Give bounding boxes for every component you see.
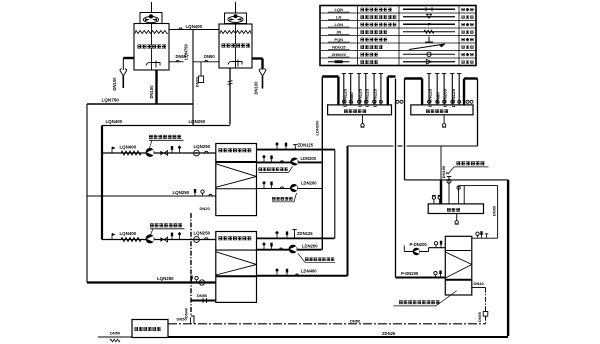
svg-text:DN50: DN50 bbox=[110, 331, 121, 336]
wire y180 line bbox=[405, 179, 509, 181]
label chiller2 primary pump bbox=[298, 254, 335, 263]
svg-text:LDN200: LDN200 bbox=[314, 120, 319, 136]
PHE supply wire with pump bbox=[404, 241, 445, 256]
wire trunk x477 bbox=[477, 79, 479, 147]
wire y146 cross line bbox=[348, 145, 478, 147]
chiller unit 2 bbox=[216, 232, 257, 303]
wire trunk x404 bbox=[404, 79, 406, 180]
svg-text:LGN: LGN bbox=[335, 22, 344, 27]
wire drop x441 to distributor bbox=[440, 146, 442, 204]
label PHE name bbox=[394, 291, 457, 306]
svg-text:DN50: DN50 bbox=[176, 54, 187, 59]
svg-text:LQN400: LQN400 bbox=[186, 24, 203, 29]
CT2 overflow drain with funnel bbox=[252, 59, 266, 89]
chiller2 port3 wire LDN400 bbox=[257, 268, 348, 276]
CT2 outlet pipe bbox=[228, 68, 233, 125]
header1 right bridge bbox=[388, 77, 396, 105]
svg-text:LN: LN bbox=[336, 14, 341, 19]
legend table grid bbox=[320, 6, 476, 66]
svg-text:LQN250: LQN250 bbox=[194, 230, 211, 235]
label P-DN200 bottom bbox=[401, 271, 419, 276]
svg-text:L-DN125: L-DN125 bbox=[342, 88, 347, 107]
riser x322 with top bridge bbox=[322, 77, 338, 250]
svg-text:F: F bbox=[428, 22, 431, 27]
makeup water dash riser x191 bbox=[191, 206, 211, 324]
svg-text:LDN200: LDN200 bbox=[301, 181, 317, 186]
label P-DN200 top bbox=[410, 242, 428, 247]
svg-text:DN150: DN150 bbox=[149, 85, 154, 99]
chiller1 port1 wire ZDN125 bbox=[257, 142, 335, 150]
svg-text:L-DN125: L-DN125 bbox=[428, 88, 433, 107]
label DN50 left bbox=[176, 54, 187, 59]
svg-text:JN: JN bbox=[336, 29, 341, 34]
CT2 drain label DN100 bbox=[254, 81, 259, 95]
label LQN400 inter-tower bbox=[186, 24, 203, 29]
chiller2 port2 wire with pump bbox=[257, 242, 322, 253]
cooling tower CT1 fan box bbox=[140, 13, 162, 24]
header1 riser labels bbox=[342, 88, 377, 107]
wire bottom solid line bbox=[168, 331, 508, 337]
wire trunk x347 bbox=[347, 146, 349, 276]
distributor bottom drain bbox=[455, 214, 459, 225]
wire right trunk x508 bbox=[507, 180, 509, 336]
svg-text:DN50: DN50 bbox=[350, 318, 361, 323]
svg-text:LQN250: LQN250 bbox=[173, 190, 190, 195]
wire return LQN250 y282.5 bbox=[87, 276, 216, 286]
pump line 1 cooling water y153 bbox=[102, 144, 216, 157]
distributor risers pair bbox=[457, 186, 472, 204]
cooling tower CT2 fan box bbox=[225, 13, 247, 24]
wire makeup inlet bbox=[98, 331, 132, 342]
svg-text:L-DN125: L-DN125 bbox=[451, 88, 456, 107]
label DN50 rotated x483 bbox=[477, 312, 482, 322]
cooling tower CT2 body bbox=[219, 24, 252, 68]
distributor header box 2 bbox=[411, 105, 473, 115]
svg-text:DN80: DN80 bbox=[349, 92, 354, 104]
CT1 drain label DN100 bbox=[112, 77, 117, 91]
label LQN250 header bbox=[189, 119, 206, 124]
svg-text:DN80: DN80 bbox=[436, 92, 441, 104]
svg-text:LQN400: LQN400 bbox=[106, 119, 123, 124]
chiller unit 1 bbox=[216, 144, 257, 216]
label cooling pump 1 name bbox=[149, 136, 184, 148]
wire bottom dash-dot line bbox=[168, 317, 486, 324]
PHE drain dash riser bbox=[472, 288, 488, 324]
svg-text:DN50: DN50 bbox=[204, 54, 215, 59]
distributor riser tall bbox=[446, 172, 451, 204]
label DN70 rotated bbox=[195, 76, 200, 87]
legend column 1 pipe codes bbox=[328, 7, 350, 63]
CT1 outlet pipe bbox=[155, 70, 157, 104]
svg-text:LQN400: LQN400 bbox=[120, 231, 137, 236]
svg-text:L-DN200: L-DN200 bbox=[443, 88, 448, 107]
stray gauge pair bbox=[396, 100, 403, 103]
svg-text:DN50: DN50 bbox=[491, 205, 496, 216]
collector header box 1 bbox=[328, 105, 392, 115]
svg-text:P-DN200: P-DN200 bbox=[410, 242, 428, 247]
wire CT2 DN50 branch bbox=[193, 60, 219, 61]
DN70 drop with valve box bbox=[198, 62, 203, 83]
header1 bottom drain bbox=[361, 115, 365, 127]
svg-text:LQN: LQN bbox=[335, 7, 344, 12]
makeup water device box bbox=[132, 320, 168, 338]
header2 right bridge bbox=[464, 79, 478, 105]
svg-text:ZDN125: ZDN125 bbox=[298, 143, 314, 148]
wire trunk B x102 bbox=[101, 126, 103, 240]
PHE top right wire bbox=[472, 231, 498, 238]
wire trunk x395 bbox=[395, 79, 397, 278]
label cooling pump 2 name bbox=[150, 224, 185, 234]
label DN150 rotated x444 bbox=[441, 165, 446, 178]
svg-text:ZDN125: ZDN125 bbox=[297, 231, 313, 236]
svg-text:ZDN25: ZDN25 bbox=[382, 331, 396, 336]
svg-text:DN50: DN50 bbox=[177, 317, 188, 322]
svg-text:LDN400: LDN400 bbox=[301, 268, 317, 273]
svg-text:DN50: DN50 bbox=[197, 293, 208, 298]
header1 risers bbox=[342, 74, 384, 105]
svg-text:LQN250: LQN250 bbox=[189, 119, 206, 124]
label DN40 PHE bbox=[474, 281, 485, 286]
wire DN50 to PHE bbox=[472, 186, 498, 239]
legend column 2 descriptions bbox=[361, 9, 398, 63]
wire header y125 LQN400-LQN250 bbox=[102, 125, 230, 127]
svg-text:P-DN200: P-DN200 bbox=[401, 271, 419, 276]
svg-text:DN100: DN100 bbox=[254, 81, 259, 95]
wire riser between towers bbox=[192, 30, 194, 126]
CT1 outlet label DN150 bbox=[149, 85, 154, 99]
cooling tower CT1 body bbox=[134, 24, 169, 71]
svg-text:DN70: DN70 bbox=[195, 76, 200, 87]
header2 riser labels bbox=[428, 88, 456, 107]
cooling tower CT1 fan stub bbox=[151, 2, 153, 13]
wire return LQN250 y196 bbox=[87, 189, 216, 196]
header2 left bridge bbox=[405, 79, 423, 105]
plate heat exchanger PHE bbox=[445, 236, 472, 295]
wire trunk A x87 bbox=[86, 104, 88, 283]
chiller1 port2 wire with pump bbox=[257, 155, 322, 166]
label DN40 rotated x187 bbox=[184, 308, 189, 318]
gauge pair header2 bbox=[466, 100, 473, 103]
wire inter-tower LQN400 bbox=[169, 28, 219, 30]
svg-text:LQN250: LQN250 bbox=[157, 276, 174, 281]
svg-text:NDG15: NDG15 bbox=[332, 44, 346, 49]
svg-text:PQN: PQN bbox=[334, 37, 343, 42]
label LQN750 riser bbox=[184, 43, 189, 59]
svg-text:LQN750: LQN750 bbox=[102, 97, 120, 102]
svg-text:LDN200: LDN200 bbox=[302, 243, 318, 248]
svg-text:DN20: DN20 bbox=[200, 206, 211, 211]
legend column 3 line symbols bbox=[403, 7, 455, 64]
PHE return wire bbox=[396, 271, 446, 278]
svg-text:LDN200: LDN200 bbox=[301, 156, 317, 161]
cooling tower CT2 fan stub bbox=[235, 2, 237, 13]
label LDN200 rotated x318 bbox=[314, 120, 319, 136]
svg-text:L-DN125: L-DN125 bbox=[373, 88, 378, 107]
svg-text:DN100: DN100 bbox=[112, 77, 117, 91]
distributor risers small bbox=[432, 195, 441, 204]
legend column 4 notes bbox=[462, 9, 475, 63]
small distributor box bbox=[428, 204, 483, 214]
chiller2 port1 wire ZDN125 bbox=[257, 230, 335, 239]
svg-text:DN50: DN50 bbox=[477, 312, 482, 322]
label chiller1 secondary pump bbox=[272, 193, 297, 202]
header2 bottom drain bbox=[442, 115, 446, 127]
label plant makeup note bbox=[448, 162, 489, 174]
label LQN400 header bbox=[106, 119, 123, 124]
wire chiller2 makeup y300.5 bbox=[191, 293, 216, 303]
wire header LQN750 y104 bbox=[87, 103, 193, 105]
label DN50 rotated x495 bbox=[491, 205, 496, 216]
svg-text:L-DN125: L-DN125 bbox=[364, 88, 369, 107]
chiller1 port3 wire with pump bbox=[257, 181, 322, 192]
svg-text:DN40: DN40 bbox=[474, 281, 485, 286]
svg-text:ZH0000: ZH0000 bbox=[332, 52, 347, 57]
wire riser x335 between chiller port1 lines bbox=[334, 150, 336, 239]
label DN50 right bbox=[204, 54, 215, 59]
svg-text:LQN250: LQN250 bbox=[194, 144, 211, 149]
label chiller1 primary pump bbox=[259, 167, 293, 173]
svg-text:LQN400: LQN400 bbox=[120, 144, 137, 149]
pump line 2 cooling water y239.5 bbox=[102, 230, 216, 243]
svg-text:L-DN125: L-DN125 bbox=[358, 88, 363, 107]
CT1 overflow drain with funnel bbox=[120, 58, 134, 88]
label LQN750 header bbox=[102, 97, 120, 102]
header2 risers bbox=[427, 74, 462, 105]
wire CT1 DN50 branch bbox=[169, 60, 184, 61]
